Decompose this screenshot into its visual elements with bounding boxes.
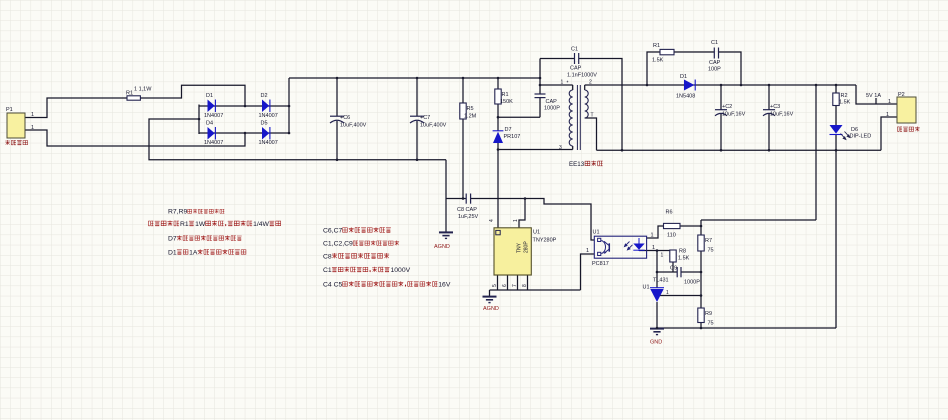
svg-text:TNY280P: TNY280P bbox=[533, 238, 557, 244]
svg-text:3: 3 bbox=[559, 145, 562, 151]
wire LED bottom down to gnd return bbox=[835, 150, 837, 328]
diode D2 (bridge) bbox=[262, 100, 270, 113]
svg-text:C1: C1 bbox=[323, 267, 332, 274]
label P2 port name bbox=[897, 126, 919, 131]
note annotation line 1 bbox=[168, 209, 224, 216]
diode D6 (DIP-LED) bbox=[830, 125, 843, 135]
optocoupler U1 PC817 box bbox=[594, 236, 646, 258]
svg-text:U1: U1 bbox=[533, 230, 540, 236]
wire divider column bottom bbox=[700, 323, 702, 329]
wire bridge top row bbox=[199, 105, 289, 107]
svg-text:1.2M: 1.2M bbox=[464, 114, 477, 120]
svg-text:75: 75 bbox=[708, 248, 714, 254]
svg-text:DIP-LED: DIP-LED bbox=[850, 134, 872, 140]
resistor R1 (snubber 1.5K) bbox=[660, 49, 674, 54]
wire V- tap to bottom rail bbox=[149, 119, 446, 160]
svg-text:D1: D1 bbox=[206, 93, 213, 99]
svg-text:1uF,25V: 1uF,25V bbox=[458, 214, 479, 220]
diode D7 (PR107) bbox=[493, 131, 504, 143]
svg-text:1000V: 1000V bbox=[390, 267, 410, 274]
wire C6 top stub bbox=[336, 78, 338, 116]
svg-text:1: 1 bbox=[666, 290, 669, 296]
svg-text:C6,C7: C6,C7 bbox=[323, 228, 342, 235]
wire R6 left link to opto bbox=[647, 226, 664, 238]
svg-text:10uF,400V: 10uF,400V bbox=[420, 123, 447, 129]
wire D7 cathode stub bbox=[497, 117, 499, 130]
wire bridge bottom row bbox=[199, 132, 289, 134]
connector P2 bbox=[897, 97, 916, 123]
svg-text:C8 CAP: C8 CAP bbox=[457, 207, 477, 213]
wire bias line C8 left bbox=[446, 160, 466, 199]
svg-text:1.5K: 1.5K bbox=[652, 58, 664, 64]
svg-text:D5: D5 bbox=[261, 121, 268, 127]
svg-text:100P: 100P bbox=[708, 67, 721, 73]
svg-text:1: 1 bbox=[886, 112, 889, 118]
wire C1 Y-cap left link bbox=[540, 58, 574, 60]
ground AGND at U1 source bbox=[483, 297, 497, 303]
note annotation line 3 bbox=[168, 235, 242, 242]
svg-text:D1: D1 bbox=[168, 250, 177, 257]
svg-text:6: 6 bbox=[502, 284, 508, 287]
LED D6 arrows bbox=[841, 132, 850, 140]
svg-text:10uF,16V: 10uF,16V bbox=[770, 112, 794, 118]
wire 5V net tick bbox=[875, 98, 877, 104]
wire TL431 ref link bbox=[660, 295, 701, 297]
wire C1 Y-cap right leg to secondary ground bbox=[579, 59, 622, 151]
svg-text:D1: D1 bbox=[680, 74, 687, 80]
wire C7 top stub bbox=[416, 78, 418, 116]
resistor R8 (1.5K) bbox=[670, 250, 676, 262]
svg-text:R1: R1 bbox=[126, 91, 133, 97]
svg-text:R6: R6 bbox=[666, 210, 673, 216]
svg-text:PR107: PR107 bbox=[504, 134, 521, 140]
svg-text:1W: 1W bbox=[195, 221, 206, 228]
label transformer name bbox=[569, 161, 603, 168]
wire bias line C8 right to opto bbox=[471, 199, 594, 241]
svg-text:+C6: +C6 bbox=[340, 115, 350, 121]
svg-text:C1: C1 bbox=[711, 40, 718, 46]
IC U1 pin1 mark bbox=[496, 230, 500, 234]
wire U1 bottom pins stubs bbox=[498, 275, 528, 290]
note annotation line 7 bbox=[323, 253, 389, 261]
capacitor C3 (10uF 16V) bbox=[763, 110, 775, 116]
wire top V+ rail bbox=[289, 77, 540, 79]
resistor R9 (75) bbox=[698, 308, 704, 323]
svg-text:1: 1 bbox=[652, 245, 655, 251]
svg-text:5V 1A: 5V 1A bbox=[866, 93, 881, 99]
resistor R1 (150K clamp) bbox=[495, 89, 501, 104]
svg-text:150K: 150K bbox=[500, 99, 513, 105]
diode D4 (bridge) bbox=[208, 127, 216, 140]
capacitor C7 (10uF 400V) bbox=[410, 116, 424, 123]
wire secondary ground rail bbox=[597, 149, 882, 151]
svg-text:C1: C1 bbox=[571, 47, 578, 53]
wire opto cathode row to R8 bbox=[639, 250, 673, 252]
resistor R2 (LED 1.5K) bbox=[833, 93, 839, 106]
wire feedback sense drop bbox=[815, 85, 817, 220]
optocoupler light arrows bbox=[624, 242, 632, 250]
optocoupler phototransistor bbox=[598, 238, 610, 255]
wire divider column top bbox=[700, 220, 702, 235]
wire D7 anode / U1 drain column bbox=[497, 143, 499, 228]
svg-text:1000P: 1000P bbox=[544, 106, 560, 112]
svg-text:CAP: CAP bbox=[709, 60, 721, 66]
capacitor C2 (10uF 16V) bbox=[715, 110, 727, 116]
svg-text:1: 1 bbox=[661, 253, 664, 259]
wire snubber left drop bbox=[647, 52, 660, 85]
wire AGND drop at C8 bbox=[445, 199, 447, 233]
svg-text:C8: C8 bbox=[323, 254, 332, 261]
resistor R1 (input 1 ohm 1W) bbox=[127, 96, 140, 100]
svg-text:16V: 16V bbox=[438, 282, 451, 289]
svg-text:1N4007: 1N4007 bbox=[259, 113, 278, 119]
svg-text:R7: R7 bbox=[705, 238, 712, 244]
wire AGND drop at U1 bbox=[489, 290, 491, 297]
wire bridge right column (V+) bbox=[288, 78, 290, 133]
svg-text:R1: R1 bbox=[180, 221, 189, 228]
diode D1 (1N5408 output) bbox=[684, 80, 695, 91]
wire C9 line right bbox=[681, 271, 701, 273]
svg-text:1: 1 bbox=[31, 125, 34, 131]
wire feedback horizontal bbox=[701, 219, 816, 221]
svg-text:EE13: EE13 bbox=[569, 161, 585, 168]
svg-text:D7: D7 bbox=[168, 236, 177, 243]
svg-text:1: 1 bbox=[561, 80, 564, 86]
svg-text:R1: R1 bbox=[653, 43, 660, 49]
svg-text:1: 1 bbox=[31, 112, 34, 118]
svg-text:CAP: CAP bbox=[546, 99, 558, 105]
svg-text:1: 1 bbox=[586, 248, 589, 254]
svg-text:1: 1 bbox=[888, 99, 891, 105]
svg-text:280P: 280P bbox=[524, 241, 530, 253]
wire snubber middle link bbox=[674, 51, 714, 53]
svg-text:R1: R1 bbox=[502, 92, 509, 98]
wire snubber right drop bbox=[719, 52, 741, 85]
wire R6 right link bbox=[680, 225, 701, 227]
capacitor C6 (10uF 400V) bbox=[330, 116, 344, 123]
svg-text:R8: R8 bbox=[679, 249, 686, 255]
svg-text:10uF,400V: 10uF,400V bbox=[340, 123, 367, 129]
svg-text:75: 75 bbox=[708, 321, 714, 327]
ground AGND at C8 bbox=[439, 232, 453, 238]
note annotation line 9 bbox=[323, 281, 451, 288]
svg-text:D4: D4 bbox=[206, 121, 213, 127]
transformer T1 core bbox=[577, 85, 580, 150]
svg-text:1 1,1W: 1 1,1W bbox=[134, 87, 152, 93]
wire R5 bottom to bias line bbox=[462, 119, 464, 199]
note annotation line 6 bbox=[323, 240, 399, 247]
diode D5 (bridge) bbox=[262, 127, 270, 140]
wire P2 pin2 to ground rail bbox=[881, 117, 897, 150]
svg-text:1N5408: 1N5408 bbox=[676, 94, 695, 100]
wire U1 source line bbox=[490, 289, 581, 291]
svg-text:C1,C2,C9: C1,C2,C9 bbox=[323, 241, 353, 248]
wire bottom gnd link bbox=[657, 327, 836, 329]
wire R1(150K) top stub bbox=[497, 78, 499, 89]
svg-text:1.5K: 1.5K bbox=[839, 100, 851, 106]
svg-text:P1: P1 bbox=[6, 107, 13, 113]
svg-text:PC817: PC817 bbox=[592, 261, 609, 267]
svg-text:C9: C9 bbox=[670, 266, 677, 272]
svg-text:1N4007: 1N4007 bbox=[204, 113, 223, 119]
svg-text:1: 1 bbox=[651, 233, 654, 239]
optocoupler LED bbox=[633, 238, 644, 251]
wire clamp node horizontal bbox=[498, 116, 540, 118]
wire secondary bottom pin bbox=[585, 118, 597, 150]
note annotation line 4 bbox=[168, 249, 246, 256]
svg-text:U1: U1 bbox=[593, 230, 600, 236]
wire divider column middle bbox=[700, 251, 702, 308]
svg-text:D2: D2 bbox=[261, 93, 268, 99]
svg-text:P2: P2 bbox=[898, 92, 905, 98]
wire TL431 anode to gnd bbox=[656, 302, 658, 328]
svg-text:D7: D7 bbox=[505, 127, 512, 133]
svg-text:7: 7 bbox=[512, 284, 518, 287]
label P1 port name bbox=[5, 140, 27, 145]
TL431 U1 bbox=[650, 288, 664, 302]
transformer T1 primary winding bbox=[569, 90, 572, 146]
ground GND at TL431 bbox=[650, 329, 664, 335]
svg-text:110: 110 bbox=[667, 233, 676, 239]
diode D1 (bridge) bbox=[208, 100, 216, 113]
svg-text:+C7: +C7 bbox=[420, 115, 430, 121]
capacitor snubber (100P) bbox=[714, 48, 718, 59]
svg-text:1N4007: 1N4007 bbox=[204, 140, 223, 146]
svg-text:1000P: 1000P bbox=[684, 280, 700, 286]
svg-text:1: 1 bbox=[513, 219, 519, 222]
wire R2 LED column bbox=[835, 85, 837, 150]
svg-text:R5: R5 bbox=[467, 106, 474, 112]
svg-text:TNY: TNY bbox=[517, 242, 523, 253]
svg-text:AGND: AGND bbox=[483, 306, 499, 312]
wire C9 line left bbox=[657, 271, 677, 273]
wire C2 stubs bbox=[720, 85, 722, 150]
svg-text:+C3: +C3 bbox=[770, 104, 780, 110]
svg-text:U1: U1 bbox=[643, 285, 650, 291]
wire TL431 cathode column bbox=[656, 251, 658, 288]
IC U1 TNY280P body bbox=[494, 228, 531, 275]
wire R8 bottom stub bbox=[672, 262, 674, 272]
wire primary bottom to drain bbox=[498, 146, 573, 150]
svg-text:1A: 1A bbox=[189, 250, 198, 257]
wire C7 bottom stub bbox=[416, 121, 418, 160]
capacitor clamp (1000P) bbox=[535, 94, 546, 98]
wire R1(150K) bottom to clamp node bbox=[497, 104, 499, 117]
svg-text:4: 4 bbox=[489, 219, 495, 222]
capacitor C1 (Y-cap 1.1nF 1000V) bbox=[575, 53, 579, 64]
resistor R5 (1.2M) bbox=[460, 103, 466, 119]
svg-text:T: T bbox=[591, 113, 594, 119]
svg-text:5: 5 bbox=[492, 284, 498, 287]
wire bridge left column (V-) bbox=[198, 105, 200, 135]
note annotation line 2 bbox=[148, 221, 280, 228]
wire P1 pin1 to R1 bbox=[25, 98, 127, 118]
svg-text:R2: R2 bbox=[841, 93, 848, 99]
wire secondary top rail through D1 to output bbox=[585, 85, 856, 90]
wire C6 bottom stub bbox=[336, 121, 338, 160]
svg-text:GND: GND bbox=[650, 340, 662, 346]
svg-text:R9: R9 bbox=[705, 311, 712, 317]
svg-text:+C2: +C2 bbox=[722, 104, 732, 110]
svg-text:AGND: AGND bbox=[434, 244, 450, 250]
svg-text:C4 C5: C4 C5 bbox=[323, 282, 342, 289]
svg-text:1N4007: 1N4007 bbox=[259, 140, 278, 146]
wire output to P2 pin1 bbox=[856, 85, 897, 104]
svg-text:D6: D6 bbox=[851, 127, 858, 133]
wire C3 stubs bbox=[768, 85, 770, 150]
svg-text:8: 8 bbox=[522, 284, 528, 287]
svg-text:1/4W: 1/4W bbox=[253, 221, 269, 228]
svg-text:*: * bbox=[567, 81, 569, 87]
transformer T1 secondary winding bbox=[585, 90, 589, 118]
wire P1 pin2 to bridge AC2 node bbox=[25, 130, 245, 146]
svg-text:TL431: TL431 bbox=[653, 278, 669, 284]
wire U1 pin5 bus bbox=[519, 199, 525, 228]
wire R5 top stub bbox=[462, 78, 464, 103]
svg-text:CAP: CAP bbox=[570, 66, 582, 72]
resistor R6 (110) bbox=[664, 223, 681, 228]
svg-text:2: 2 bbox=[589, 80, 592, 86]
note annotation line 8 bbox=[323, 267, 411, 274]
note annotation line 5 bbox=[323, 227, 391, 234]
capacitor C9 (1000P) bbox=[677, 267, 681, 277]
svg-text:R7,R9: R7,R9 bbox=[168, 209, 187, 216]
svg-text:1.1nF1000V: 1.1nF1000V bbox=[567, 73, 597, 79]
wire primary top link bbox=[540, 85, 573, 90]
capacitor C8 (1uF 25V) bbox=[466, 194, 470, 204]
wire R1 to bridge AC1 node bbox=[140, 85, 245, 106]
wire source line up to opto emitter bbox=[581, 254, 595, 290]
connector P1 bbox=[7, 113, 25, 138]
svg-text:1.5K: 1.5K bbox=[678, 256, 690, 262]
resistor R7 (75) bbox=[698, 235, 704, 251]
svg-text:10uF,16V: 10uF,16V bbox=[722, 112, 746, 118]
wire clamp cap column bbox=[539, 59, 541, 118]
